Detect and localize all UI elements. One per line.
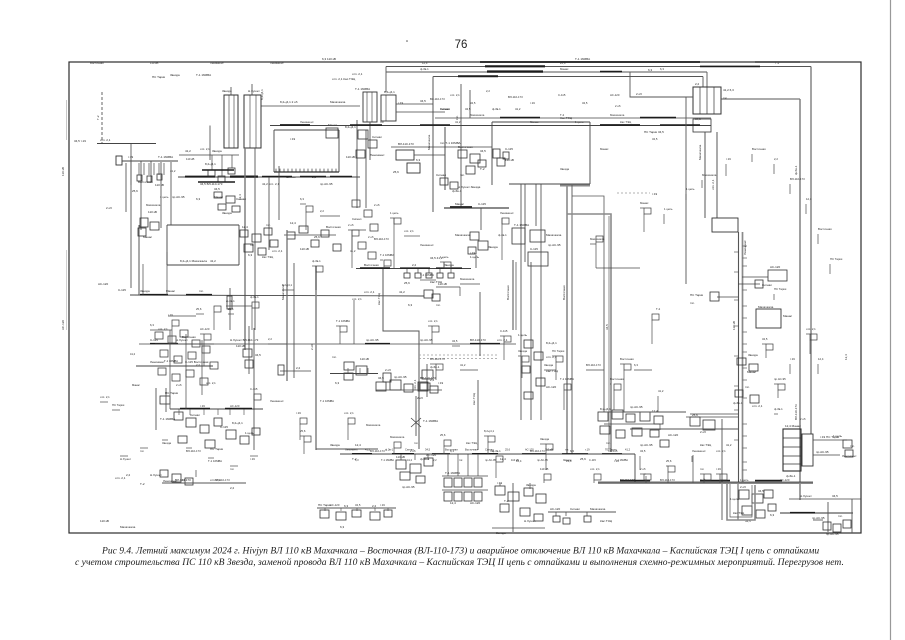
svg-text:25,6: 25,6: [393, 170, 399, 174]
tick: [734, 271, 739, 273]
stub wire: [565, 512, 567, 516]
wire: [645, 476, 647, 483]
svg-text:Ленинкент: Ленинкент: [210, 61, 224, 65]
substation box: [336, 512, 346, 520]
svg-text:ф.Зв-1: ф.Зв-1: [385, 448, 394, 452]
heavy vertical left pair A: [244, 148, 246, 350]
wire: [805, 204, 807, 214]
svg-text:АС-120: АС-120: [770, 265, 780, 269]
substation box: [440, 178, 448, 185]
svg-text:8,2+j4,1: 8,2+j4,1: [600, 407, 611, 411]
wire: [255, 95, 257, 148]
svg-text:2,2: 2,2: [126, 473, 131, 477]
wire: [268, 343, 287, 345]
svg-text:ф.Зв-1: ф.Зв-1: [430, 365, 440, 369]
svg-text:отп. 2,1: отп. 2,1: [752, 404, 763, 408]
bus y295: [130, 295, 424, 296]
wire: [162, 439, 168, 441]
svg-text:34,5: 34,5: [355, 503, 361, 507]
substation box: [766, 344, 773, 350]
busbar tick: [303, 169, 305, 172]
wire: [716, 473, 720, 475]
heavy vertical x316: [315, 266, 317, 450]
wire: [475, 255, 477, 268]
substation box: [180, 330, 188, 337]
svg-text:Т-1 16МВА: Т-1 16МВА: [575, 57, 590, 61]
bus label segment: [400, 267, 430, 269]
svg-text:Манас: Манас: [214, 195, 224, 199]
svg-text:2,2: 2,2: [320, 209, 324, 213]
bus label segment: [185, 176, 215, 178]
svg-text:ПС Тарки: ПС Тарки: [690, 293, 704, 297]
svg-text:Манас: Манас: [783, 314, 793, 318]
substation box: [536, 494, 546, 503]
svg-text:С-115: С-115: [150, 338, 158, 342]
svg-text:тяг.: тяг.: [700, 467, 704, 471]
bus label segment: [365, 343, 390, 345]
wire: [813, 519, 823, 521]
bus label segment: [472, 453, 498, 455]
wire: [230, 87, 232, 95]
svg-text:Махачкала: Махачкала: [366, 423, 381, 427]
substation box: [418, 382, 428, 391]
wire: [386, 71, 707, 73]
wire: [774, 383, 778, 385]
wire: [293, 263, 295, 378]
svg-text:С-115: С-115: [505, 147, 513, 151]
substation box: [464, 478, 472, 487]
svg-text:Махачкала: Махачкала: [460, 277, 475, 281]
wire: [452, 345, 460, 347]
wire: [230, 465, 238, 467]
svg-text:Кас.ТЭЦ: Кас.ТЭЦ: [377, 292, 381, 305]
wire: [742, 276, 768, 278]
svg-text:отп. 2,1: отп. 2,1: [272, 249, 283, 253]
busbar tick: [327, 169, 329, 172]
wire: [813, 454, 840, 456]
wire: [479, 292, 481, 356]
wire: [540, 226, 542, 420]
svg-text:Т-2: Т-2: [656, 307, 661, 311]
wire: [140, 447, 148, 449]
stub wire: [356, 508, 358, 511]
bus label segment: [436, 267, 462, 269]
svg-text:41,2: 41,2: [726, 443, 732, 447]
svg-text:Т-1 16МВА: Т-1 16МВА: [381, 458, 394, 462]
svg-text:т.19: т.19: [470, 251, 476, 255]
svg-text:Звезда: Звезда: [222, 211, 232, 215]
substation box: [368, 252, 376, 259]
wire: [634, 454, 636, 483]
wire: [530, 262, 532, 420]
substation box: [500, 504, 509, 512]
substation box: [394, 442, 401, 448]
wire: [186, 447, 192, 449]
bus label segment: [562, 453, 588, 455]
svg-text:8,2+j4,1: 8,2+j4,1: [484, 429, 494, 433]
bus label segment: [432, 453, 450, 455]
svg-text:2,2: 2,2: [268, 337, 272, 341]
wire: [738, 283, 760, 285]
substation box: [823, 522, 831, 530]
svg-text:6,3: 6,3: [416, 158, 421, 162]
wire: [639, 456, 641, 470]
svg-text:ф.Зв-1: ф.Зв-1: [733, 401, 743, 405]
substation box: [396, 150, 414, 160]
wire: [253, 400, 255, 410]
substation box: [693, 87, 721, 114]
svg-text:Звезда: Звезда: [212, 149, 222, 153]
substation box: [522, 356, 529, 362]
svg-text:отп. 2,1: отп. 2,1: [364, 290, 375, 294]
substation box: [783, 429, 801, 471]
substation box: [210, 362, 218, 369]
svg-text:ПС Тарки: ПС Тарки: [552, 349, 565, 353]
svg-text:1 цепь: 1 цепь: [740, 478, 749, 482]
substation box: [474, 478, 482, 487]
wire: [477, 380, 479, 450]
svg-text:34,5: 34,5: [214, 187, 220, 191]
svg-text:Звезда: Звезда: [488, 245, 498, 249]
wire: [704, 132, 706, 218]
svg-text:Сигнал: Сигнал: [440, 107, 450, 111]
substation box: [396, 460, 406, 469]
stub wire: [158, 163, 160, 175]
svg-text:тяг.: тяг.: [745, 385, 750, 389]
svg-text:т.19: т.19: [438, 381, 444, 385]
svg-text:С-115: С-115: [530, 247, 538, 251]
wire: [560, 185, 590, 187]
svg-text:Махачкала: Махачкала: [120, 525, 136, 529]
substation box: [168, 336, 176, 343]
svg-text:Манас: Манас: [328, 123, 338, 127]
substation box: [116, 156, 122, 165]
svg-text:тяг.: тяг.: [380, 120, 384, 124]
wire: [196, 313, 204, 315]
svg-text:С-115: С-115: [250, 387, 258, 391]
svg-text:25,6: 25,6: [228, 307, 234, 311]
svg-text:тяг.: тяг.: [690, 301, 695, 305]
substation box: [524, 340, 533, 348]
wire: [572, 196, 604, 280]
substation box: [245, 360, 253, 368]
svg-text:Махачкала: Махачкала: [758, 305, 774, 309]
svg-text:Т-1 16МВА: Т-1 16МВА: [208, 459, 222, 463]
svg-text:ф.Зв-1: ф.Зв-1: [774, 407, 783, 411]
wire: [347, 424, 349, 440]
stub wire: [586, 512, 588, 516]
bus y409: [170, 408, 263, 410]
wire: [590, 243, 596, 245]
stub wire: [374, 508, 376, 511]
svg-text:т.19: т.19: [290, 137, 296, 141]
busbar tick: [291, 169, 293, 172]
substation box: [138, 228, 146, 236]
substation box: [147, 176, 152, 182]
stub wire: [367, 368, 369, 374]
substation box: [240, 436, 249, 444]
wire: [300, 203, 306, 205]
svg-text:Т-1 16МВА: Т-1 16МВА: [514, 223, 529, 227]
wire: [444, 127, 446, 190]
stub wire: [427, 454, 429, 460]
wire: [563, 390, 565, 410]
svg-text:отп. 2,1: отп. 2,1: [100, 138, 111, 142]
svg-text:пр.АС-95: пр.АС-95: [172, 195, 185, 199]
bus 110kV lower: [435, 117, 711, 119]
wire: [460, 369, 478, 371]
svg-text:34,5: 34,5: [420, 99, 426, 103]
bus label segment: [198, 181, 235, 183]
svg-text:Рис 9.4. Летний максимум 2024: Рис 9.4. Летний максимум 2024 г. Hivjyn …: [101, 546, 819, 557]
svg-text:отп. 2,1: отп. 2,1: [413, 379, 417, 390]
svg-text:отп. 2,1: отп. 2,1: [115, 476, 126, 480]
stub wire: [477, 454, 479, 476]
svg-text:2,2: 2,2: [372, 504, 377, 508]
svg-text:тяг.: тяг.: [850, 444, 855, 448]
svg-text:Т-1 16МВА: Т-1 16МВА: [355, 87, 370, 91]
wire: [783, 437, 801, 439]
svg-text:110 кВ: 110 кВ: [505, 158, 514, 162]
svg-text:ф.Зв-1: ф.Зв-1: [312, 259, 321, 263]
substation box: [530, 230, 545, 242]
substation box: [737, 358, 746, 365]
svg-text:Восточная: Восточная: [610, 377, 624, 381]
svg-text:25,6: 25,6: [300, 429, 306, 433]
svg-text:Н.Хушет: Н.Хушет: [120, 457, 132, 461]
wire: [492, 121, 590, 123]
wire: [684, 124, 693, 126]
wire: [543, 480, 545, 483]
wire: [703, 478, 705, 483]
substation box: [270, 240, 278, 247]
dashed tie B: [419, 358, 497, 360]
wire: [122, 160, 178, 162]
svg-text:Т-2: Т-2: [560, 113, 565, 117]
svg-text:ВЛ-110-173: ВЛ-110-173: [508, 95, 523, 99]
wire: [317, 507, 396, 509]
bus label segment: [202, 169, 234, 171]
wire: [251, 308, 253, 330]
svg-text:12,4: 12,4: [806, 197, 812, 201]
wire: [595, 242, 597, 268]
bus label segment: [352, 453, 372, 455]
bus label segment: [600, 124, 640, 126]
substation box: [584, 516, 591, 522]
stub wire: [203, 409, 205, 415]
stub wire: [359, 368, 361, 374]
svg-text:ПС Тарки: ПС Тарки: [152, 75, 166, 79]
substation box: [155, 332, 163, 339]
wire: [509, 183, 590, 185]
wire: [809, 340, 811, 354]
wire: [717, 296, 738, 298]
substation box: [172, 474, 181, 482]
svg-text:Кас.ТЭЦ: Кас.ТЭЦ: [466, 441, 478, 445]
substation box: [624, 364, 631, 370]
svg-text:Звезда: Звезда: [544, 363, 553, 367]
substation box: [400, 472, 410, 480]
substation box: [407, 163, 420, 173]
stub wire: [340, 508, 342, 511]
substation box: [755, 280, 763, 288]
substation box: [742, 506, 752, 515]
svg-text:6,3: 6,3: [300, 197, 304, 201]
substation box: [478, 241, 488, 250]
substation box: [394, 218, 401, 224]
wire: [643, 214, 645, 232]
bus y268: [356, 268, 471, 270]
wire: [169, 330, 171, 409]
substation box: [306, 206, 313, 212]
svg-text:12,4: 12,4: [422, 61, 428, 65]
wire: [366, 92, 368, 122]
wire: [278, 166, 280, 220]
substation box: [520, 508, 530, 516]
svg-text:тяг.: тяг.: [838, 514, 843, 518]
wire: [385, 95, 387, 121]
svg-text:6,3: 6,3: [660, 67, 664, 71]
svg-text:Ленинкент: Ленинкент: [270, 399, 284, 403]
svg-text:ПС Тарки 34,5: ПС Тарки 34,5: [644, 130, 664, 134]
stub wire: [439, 269, 441, 274]
svg-text:6,3: 6,3: [408, 303, 413, 307]
svg-text:т.19: т.19: [790, 357, 795, 361]
wire: [721, 419, 723, 520]
stub wire: [347, 368, 349, 374]
svg-text:8,2+j4,1: 8,2+j4,1: [260, 89, 264, 100]
bus levoberezhnaya: [97, 143, 156, 145]
svg-text:АС-120: АС-120: [470, 501, 480, 505]
wire: [623, 370, 625, 412]
svg-text:тяг.: тяг.: [459, 459, 463, 462]
svg-text:ВЛ-110-173: ВЛ-110-173: [420, 376, 436, 380]
wire: [386, 66, 811, 68]
wire: [806, 333, 810, 335]
wire: [774, 413, 778, 415]
wire: [762, 343, 766, 345]
wire: [391, 146, 429, 148]
substation box: [594, 474, 601, 480]
substation box: [436, 364, 443, 370]
svg-text:110 кВ: 110 кВ: [360, 357, 369, 361]
wire: [751, 154, 753, 162]
svg-text:Восточная: Восточная: [138, 180, 153, 184]
wire: [655, 313, 657, 315]
svg-text:Манас: Манас: [166, 289, 176, 293]
stub wire: [387, 508, 389, 511]
svg-text:т.19: т.19: [652, 192, 658, 196]
tick: [734, 385, 739, 387]
svg-text:Т-2: Т-2: [352, 457, 357, 461]
svg-text:1 цепь: 1 цепь: [686, 187, 695, 191]
busbar tick: [275, 169, 277, 172]
substation box: [368, 140, 377, 148]
substation box: [524, 488, 533, 496]
substation box: [454, 492, 462, 501]
bus label segment: [602, 453, 622, 455]
substation box: [214, 418, 222, 426]
svg-text:2 об: 2 об: [410, 449, 416, 453]
svg-text:Ленинкент: Ленинкент: [500, 211, 514, 215]
busbar tick: [335, 169, 337, 172]
wire: [620, 363, 624, 365]
substation box: [252, 428, 260, 435]
wire: [411, 418, 421, 427]
wire: [312, 265, 316, 267]
wire: [520, 184, 522, 330]
svg-text:Сигнал: Сигнал: [190, 413, 200, 417]
substation box: [384, 510, 392, 517]
tick: [743, 351, 748, 353]
bus y344: [139, 343, 516, 345]
wire: [305, 212, 307, 230]
svg-text:отп. 2,1: отп. 2,1: [450, 93, 460, 97]
wire: [140, 161, 142, 230]
svg-text:2 об: 2 об: [615, 104, 621, 108]
substation box: [208, 170, 215, 176]
wire: [208, 457, 214, 459]
substation box: [186, 418, 196, 427]
svg-text:34,5: 34,5: [255, 353, 261, 357]
wire: [460, 283, 480, 285]
substation box: [616, 430, 625, 438]
svg-text:12,4: 12,4: [242, 225, 248, 229]
svg-text:41,2: 41,2: [350, 249, 356, 253]
svg-text:Махачкала: Махачкала: [470, 113, 485, 117]
bus label segment: [600, 71, 622, 73]
stub wire: [457, 454, 459, 476]
substation box: [244, 95, 261, 148]
wire: [443, 262, 445, 268]
busbar tick: [279, 169, 281, 172]
wire: [690, 413, 738, 415]
bus label segment: [755, 480, 782, 482]
wire: [716, 132, 718, 218]
svg-text:отп. 2,1: отп. 2,1: [206, 381, 216, 385]
svg-text:АС-120: АС-120: [230, 404, 240, 408]
wire: [789, 184, 791, 194]
wire: [390, 217, 394, 219]
substation box: [381, 95, 396, 121]
wire: [376, 389, 442, 391]
wire: [100, 401, 108, 403]
substation box: [432, 294, 440, 301]
wire: [253, 328, 255, 450]
svg-text:С-115: С-115: [558, 93, 566, 97]
substation box: [488, 436, 495, 442]
substation box: [299, 226, 308, 233]
tick: [743, 331, 748, 333]
substation box: [768, 504, 776, 511]
substation box: [420, 383, 430, 390]
wire: [730, 484, 752, 517]
substation box: [258, 248, 266, 255]
svg-text:34,5: 34,5: [480, 149, 486, 153]
bus label segment: [790, 512, 815, 514]
page edge line: [890, 0, 892, 640]
svg-text:Восточная: Восточная: [562, 285, 566, 300]
wire: [495, 462, 497, 478]
stub wire: [163, 163, 165, 175]
wire: [167, 224, 239, 226]
stub wire: [178, 409, 180, 415]
wire: [460, 84, 462, 208]
svg-text:2,2: 2,2: [196, 363, 200, 367]
wire: [436, 286, 460, 288]
svg-text:25,6: 25,6: [314, 235, 320, 239]
tick: [734, 251, 739, 253]
